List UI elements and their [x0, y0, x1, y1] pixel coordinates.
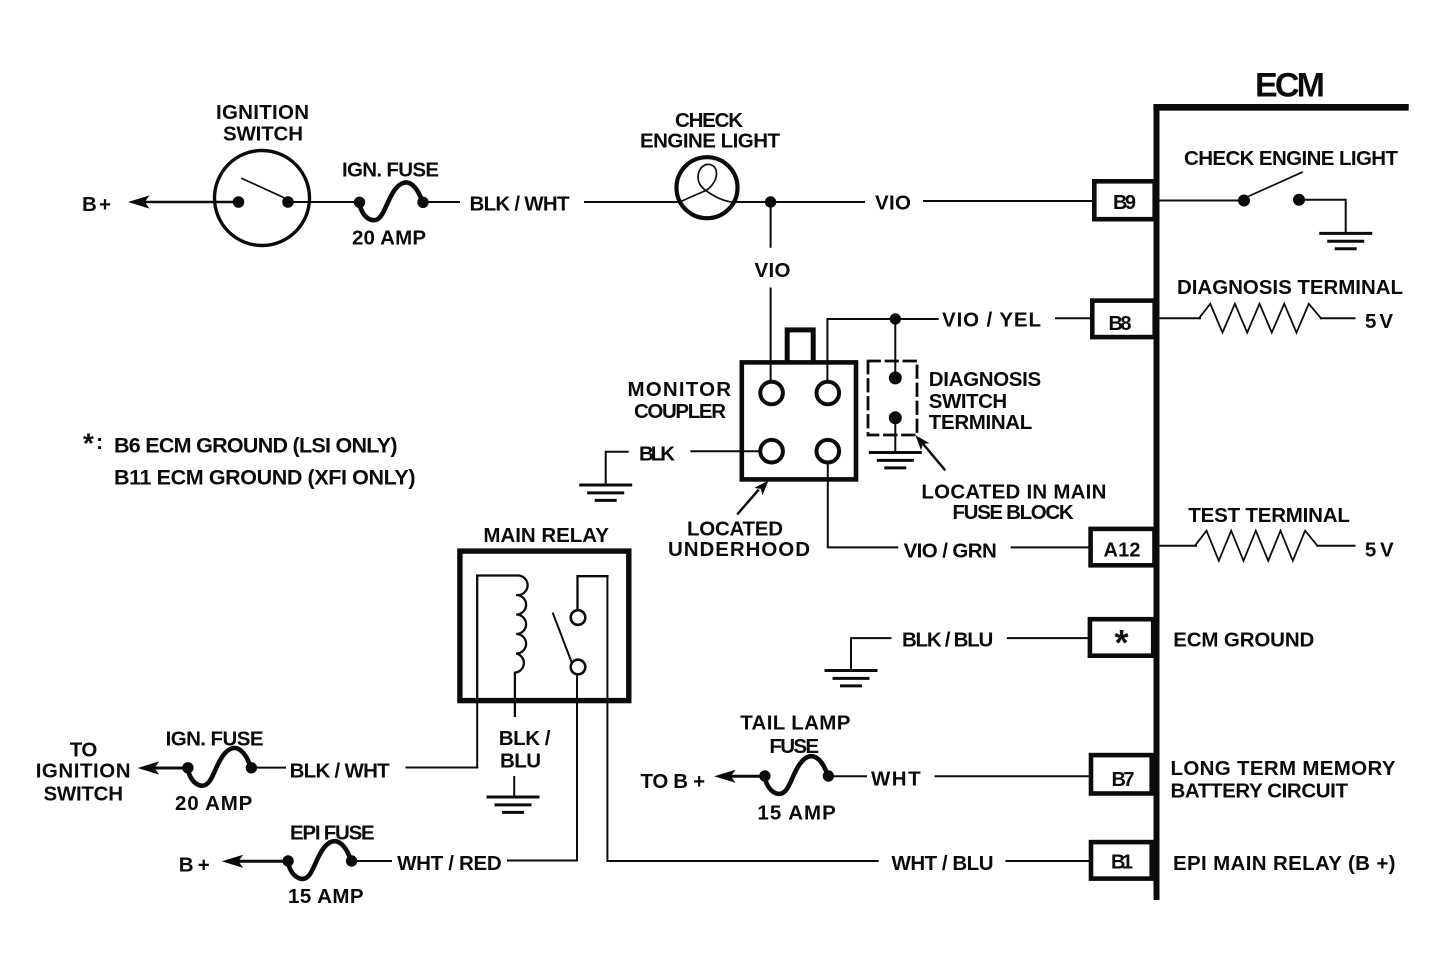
- terminal B1: [1091, 842, 1152, 879]
- relay coil: [477, 576, 527, 716]
- fuse IGN. FUSE 20 AMP (bottom): [182, 748, 257, 786]
- wire B9 to switch: [1160, 200, 1245, 202]
- svg-text:TERMINAL: TERMINAL: [929, 411, 1033, 434]
- wire VIO into coupler pin (top-left): [770, 362, 772, 382]
- wire BLK to ground: [606, 452, 628, 485]
- wire BLK/BLU to terminal *: [1008, 637, 1090, 639]
- svg-text:LONG TERM MEMORY: LONG TERM MEMORY: [1171, 757, 1396, 780]
- svg-text:IGNITION: IGNITION: [36, 760, 131, 783]
- wire B8 to resistor: [1160, 317, 1201, 319]
- svg-text:IGN. FUSE: IGN. FUSE: [166, 728, 264, 751]
- wire VIO/YEL (coupler corner to junction dot and onward): [827, 319, 937, 382]
- wire arrow to EPI fuse: [222, 855, 244, 868]
- svg-text:B7: B7: [1112, 769, 1135, 791]
- svg-text:BLK: BLK: [639, 443, 675, 466]
- svg-text:DIAGNOSIS: DIAGNOSIS: [929, 368, 1041, 391]
- wire BLK to coupler pin (bottom-left): [691, 450, 760, 452]
- wire WHT/RED to relay switch: [508, 860, 577, 862]
- monitor coupler connector: [742, 330, 856, 480]
- svg-text:VIO: VIO: [755, 259, 791, 282]
- wire relay coil left side down to BLK/WHT run: [407, 698, 478, 768]
- svg-text:VIO / YEL: VIO / YEL: [942, 309, 1041, 332]
- wire arrow to IGN fuse (bottom): [138, 761, 160, 774]
- svg-text:SWITCH: SWITCH: [44, 783, 124, 806]
- svg-text:TO: TO: [70, 739, 98, 762]
- svg-text:5V: 5V: [1365, 310, 1393, 333]
- fuse EPI FUSE 15 AMP: [282, 841, 357, 879]
- dashed diagnosis switch terminal box: [868, 361, 917, 435]
- svg-text:EPI MAIN RELAY (B +): EPI MAIN RELAY (B +): [1173, 852, 1396, 875]
- wire resistor to 5V: [1321, 317, 1355, 319]
- terminal A12: [1091, 529, 1155, 565]
- wire arrow to tail lamp fuse: [714, 770, 736, 783]
- wire BLK/WHT to check engine light lamp: [585, 201, 679, 203]
- wire relay switch (upper contact) to WHT/BLU run: [607, 576, 877, 861]
- svg-text:BLK / BLU: BLK / BLU: [902, 629, 993, 652]
- ignition switch: [215, 151, 310, 246]
- svg-text:ECM: ECM: [1255, 67, 1325, 105]
- svg-text:ENGINE LIGHT: ENGINE LIGHT: [640, 130, 780, 153]
- svg-text::: :: [96, 430, 103, 454]
- terminal * (ECM ground): [1090, 619, 1153, 663]
- ground (diagnosis switch terminal): [870, 453, 920, 468]
- wire BLK/WHT to relay coil: [407, 767, 478, 769]
- check engine light switch contacts: [1238, 195, 1250, 207]
- wire relay switch (lower contact) down to WHT/RED: [576, 674, 578, 860]
- wire fuse to WHT label: [834, 775, 866, 777]
- arrow located underhood: [738, 481, 769, 514]
- wire WHT to B7: [936, 775, 1090, 777]
- svg-text:5V: 5V: [1365, 539, 1394, 562]
- node junction VIO/YEL: [890, 313, 901, 324]
- wire lamp to junction: [735, 201, 864, 203]
- wire lower contact to ground: [894, 418, 896, 453]
- wire fuse to WHT/RED label: [357, 860, 391, 862]
- main relay: [460, 551, 629, 716]
- relay switch: [571, 610, 586, 625]
- svg-text:SWITCH: SWITCH: [223, 123, 303, 146]
- diagnosis switch terminal contacts: [889, 371, 902, 384]
- svg-text:BLK /: BLK /: [499, 727, 551, 750]
- wire WHT/BLU to B1: [1007, 860, 1091, 862]
- wire fuse to BLK/WHT label: [428, 201, 459, 203]
- svg-text:20 AMP: 20 AMP: [352, 227, 426, 250]
- svg-text:TEST TERMINAL: TEST TERMINAL: [1188, 504, 1350, 527]
- svg-text:15 AMP: 15 AMP: [288, 885, 364, 908]
- fuse IGN. FUSE 20 AMP (top): [354, 182, 429, 220]
- svg-text:15 AMP: 15 AMP: [757, 802, 835, 825]
- svg-text:20 AMP: 20 AMP: [175, 792, 252, 815]
- svg-text:TO B +: TO B +: [641, 770, 706, 793]
- svg-text:UNDERHOOD: UNDERHOOD: [668, 538, 810, 561]
- svg-text:A12: A12: [1104, 540, 1141, 562]
- svg-text:VIO: VIO: [875, 192, 911, 215]
- svg-text:DIAGNOSIS TERMINAL: DIAGNOSIS TERMINAL: [1177, 276, 1403, 299]
- wire VIO to terminal B9: [924, 200, 1092, 202]
- svg-text:BLK / WHT: BLK / WHT: [290, 760, 391, 783]
- svg-text:MAIN RELAY: MAIN RELAY: [483, 524, 609, 547]
- svg-text:B9: B9: [1113, 192, 1136, 214]
- wire junction to upper contact: [894, 319, 896, 378]
- resistor (test terminal): [1195, 531, 1317, 561]
- svg-text:B11 ECM GROUND (XFI ONLY): B11 ECM GROUND (XFI ONLY): [114, 466, 416, 490]
- wire VIO vertical (junction down to monitor coupler): [770, 202, 772, 247]
- svg-text:EPI FUSE: EPI FUSE: [290, 822, 375, 845]
- svg-text:BLK / WHT: BLK / WHT: [470, 193, 570, 216]
- svg-text:B1: B1: [1111, 852, 1133, 874]
- wire VIO/YEL out of coupler pin (top-right): [826, 362, 828, 382]
- terminal B7: [1091, 755, 1152, 793]
- terminal B9: [1094, 181, 1154, 219]
- arrow located in main fuse block: [916, 435, 945, 469]
- wire switch to ground: [1305, 200, 1346, 234]
- svg-text:B8: B8: [1109, 313, 1132, 335]
- svg-text:BATTERY CIRCUIT: BATTERY CIRCUIT: [1171, 780, 1349, 803]
- svg-text:WHT / BLU: WHT / BLU: [892, 852, 994, 875]
- svg-text:WHT / RED: WHT / RED: [397, 852, 502, 875]
- svg-text:CHECK ENGINE LIGHT: CHECK ENGINE LIGHT: [1184, 147, 1398, 170]
- wire resistor to 5V: [1317, 545, 1354, 547]
- check engine light lamp: [677, 157, 738, 218]
- wire fuse to BLK/WHT label (bottom): [257, 767, 285, 769]
- svg-text:IGNITION: IGNITION: [216, 101, 309, 124]
- node junction VIO: [765, 196, 776, 207]
- wire BLK/BLU stub to ground: [851, 638, 891, 670]
- svg-text:B +: B +: [82, 193, 111, 216]
- svg-text:FUSE BLOCK: FUSE BLOCK: [952, 501, 1073, 524]
- wire A12 to resistor: [1160, 545, 1197, 547]
- fuse TAIL LAMP FUSE 15 AMP: [759, 756, 834, 794]
- terminal B8: [1092, 301, 1154, 338]
- wire VIO/GRN (coupler pin bottom-right down and right): [828, 463, 897, 548]
- svg-text:*: *: [1114, 622, 1128, 663]
- wire relay coil to ground: [513, 777, 515, 797]
- svg-text:ECM GROUND: ECM GROUND: [1173, 629, 1314, 652]
- wire VIO/YEL to B8: [1056, 317, 1092, 319]
- resistor (diagnosis terminal): [1199, 304, 1321, 333]
- ECM module outline: [1153, 107, 1408, 900]
- svg-text:SWITCH: SWITCH: [929, 390, 1007, 413]
- svg-text:B +: B +: [179, 854, 210, 877]
- svg-text:MONITOR: MONITOR: [628, 378, 732, 401]
- wire B+ arrow to ignition switch: [128, 195, 150, 208]
- ground (relay coil): [488, 797, 538, 812]
- wire ignition switch to IGN fuse: [288, 201, 360, 203]
- svg-text:COUPLER: COUPLER: [634, 400, 726, 423]
- svg-text:TAIL LAMP: TAIL LAMP: [740, 712, 850, 735]
- svg-text:B6 ECM GROUND (LSI ONLY): B6 ECM GROUND (LSI ONLY): [114, 434, 398, 458]
- svg-text:IGN. FUSE: IGN. FUSE: [342, 159, 439, 182]
- ground (ECM ground wire): [826, 671, 876, 686]
- svg-text:BLU: BLU: [500, 750, 541, 773]
- svg-text:*: *: [83, 428, 94, 459]
- ground (BLK wire of coupler): [581, 485, 631, 500]
- ground (check engine light switch): [1321, 233, 1371, 248]
- note: asterisk footnote: [83, 428, 416, 490]
- svg-text:WHT: WHT: [871, 768, 921, 791]
- svg-text:VIO / GRN: VIO / GRN: [904, 540, 997, 563]
- wire VIO/GRN to A12: [1012, 546, 1090, 548]
